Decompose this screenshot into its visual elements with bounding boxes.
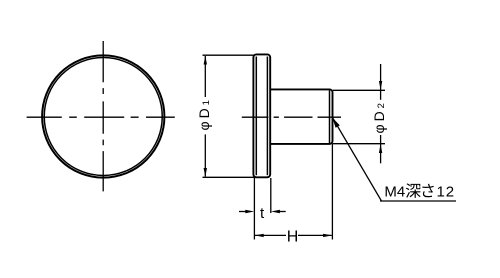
dim phiD2 top extension line [333,89,385,91]
leader diagonal line [333,118,382,201]
dim phiD2 lower arrow tail [380,144,382,163]
dim phiD2 upper arrow tail [380,64,382,90]
dim phiD2 arrow up [379,144,382,153]
front view outer circle [42,55,164,177]
label phiD1 [196,100,212,130]
dim t right extension line [270,178,272,213]
dim phiD1 arrow up [204,56,207,65]
horizontal center line [27,116,175,118]
dim phiD2 arrow down [379,81,382,90]
label phiD2 [371,103,387,133]
svg-text:1: 1 [201,100,212,105]
dim H left arrowhead [255,234,264,237]
dim H right extension line [331,144,333,240]
dim t left extension line [253,178,255,240]
svg-text:φD: φD [371,108,387,133]
leader underline [380,200,456,202]
vertical center line [102,41,104,191]
flange right inner edge line [266,57,268,176]
kanji fukai (deep) glyph path [406,183,421,198]
dim phiD1 dimension line lower [204,134,206,176]
dim phiD2 bottom extension line [333,143,385,145]
flange left inner edge line [255,57,257,176]
svg-text:φD: φD [196,105,212,130]
label M4 fukasa 12 [384,183,455,200]
kana sa glyph path [422,184,433,198]
dim H dimension line left [255,234,286,236]
side view center line [242,116,341,118]
dim phiD1 bottom extension line [203,176,256,178]
shaft outline [270,89,332,143]
leader arrowhead M4 [332,118,340,128]
dim phiD1 dimension line upper [204,56,206,97]
dim H right arrowhead [323,234,332,237]
dim t right arrow tail [277,211,286,213]
flange outline [253,54,270,177]
dim phiD1 top extension line [203,54,255,56]
svg-text:2: 2 [376,103,387,108]
dim phiD2 stub above text [380,90,382,100]
dim phiD2 stub below text [380,135,382,144]
front view inner circle [44,58,162,176]
shaft end inner line [329,90,331,143]
dim t left arrow tail [239,211,249,213]
dim H dimension line right [298,234,332,236]
dim t right arrowhead [271,210,280,213]
svg-text:H: H [287,229,299,246]
dim t left arrowhead [245,210,254,213]
svg-text:M4: M4 [384,184,405,201]
dim phiD1 arrow down [204,168,207,177]
svg-text:12: 12 [437,184,456,201]
